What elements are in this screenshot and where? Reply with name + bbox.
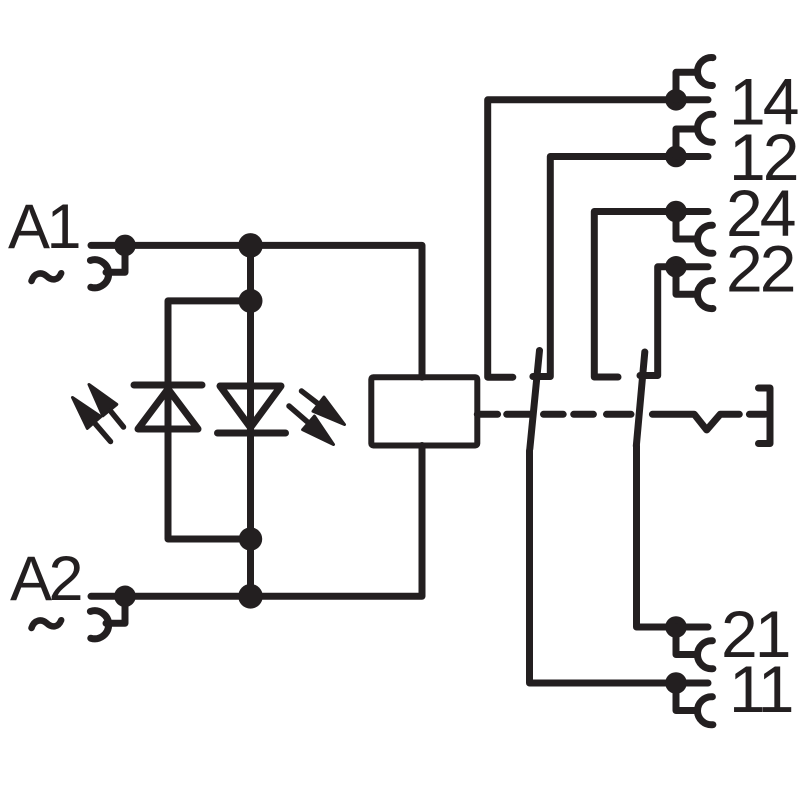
contact 1 lever (11-12): [530, 351, 540, 450]
main vertical wire A1 node to A2 node (through right LED): [247, 245, 254, 596]
svg-text:A2: A2: [10, 544, 81, 614]
wire terminal 21 to contact 2 lever: [637, 446, 709, 627]
wire terminal 22 to contact 2 NC: [640, 267, 708, 376]
LED D2 (right, pointing down): triangle: [220, 386, 281, 428]
svg-text:A1: A1: [8, 192, 79, 262]
node dot terminal 22: [665, 256, 687, 278]
LED D2 light arrow upper: [302, 391, 345, 425]
node dot terminal 14: [665, 89, 687, 111]
node dot on A2 wire at clamp: [114, 586, 136, 608]
node dot on A1 wire at clamp: [114, 235, 136, 257]
contact 2 lever (21-22): [636, 352, 645, 446]
svg-text:11: 11: [729, 652, 792, 726]
junction dot A1/main vertical: [238, 233, 263, 258]
node dot terminal 21: [665, 616, 687, 638]
AC tilde symbol at A1: [32, 273, 62, 281]
mechanical actuator bracket: [759, 388, 771, 444]
LED D1 light arrow lower: [73, 398, 111, 442]
svg-text:22: 22: [726, 232, 794, 306]
wire A1 to relay coil top: [91, 245, 422, 377]
clamp terminal A2: [90, 596, 125, 638]
relay coil K1: [371, 377, 477, 445]
clamp terminal 14: [676, 58, 713, 100]
mechanical link dashed line from coil: [477, 414, 765, 430]
clamp terminal 12: [676, 114, 713, 156]
junction dot branch split: [239, 289, 263, 313]
LED D1 light arrow upper: [89, 385, 124, 428]
LED branch: left branch wire from node to left LED string: [168, 301, 251, 539]
clamp terminal 22: [676, 267, 713, 309]
AC tilde symbol at A2: [32, 620, 62, 628]
node dot terminal 24: [665, 201, 687, 223]
clamp terminal 24: [676, 212, 713, 254]
wire terminal 12 to contact 1 NC: [533, 157, 708, 377]
wire terminal 14 to contact 1 NO: [488, 100, 708, 377]
clamp terminal 11: [676, 683, 713, 725]
clamp terminal A1: [90, 245, 125, 287]
LED D1 triangle: [138, 389, 198, 429]
wire terminal 11 to contact 1 lever: [530, 451, 709, 684]
node dot terminal 11: [665, 672, 687, 694]
LED D2 cathode bar: [218, 430, 286, 437]
wire A2 to relay coil bottom: [91, 446, 422, 597]
LED D1 (left, pointing up): cathode bar: [134, 382, 202, 389]
junction dot branch rejoin: [239, 527, 262, 550]
clamp terminal 21: [676, 627, 713, 669]
junction dot A2/main vertical: [238, 584, 263, 609]
node dot terminal 12: [665, 146, 687, 168]
wire terminal 24 to contact 2 NO: [594, 212, 708, 378]
LED D2 light arrow lower: [289, 406, 334, 445]
